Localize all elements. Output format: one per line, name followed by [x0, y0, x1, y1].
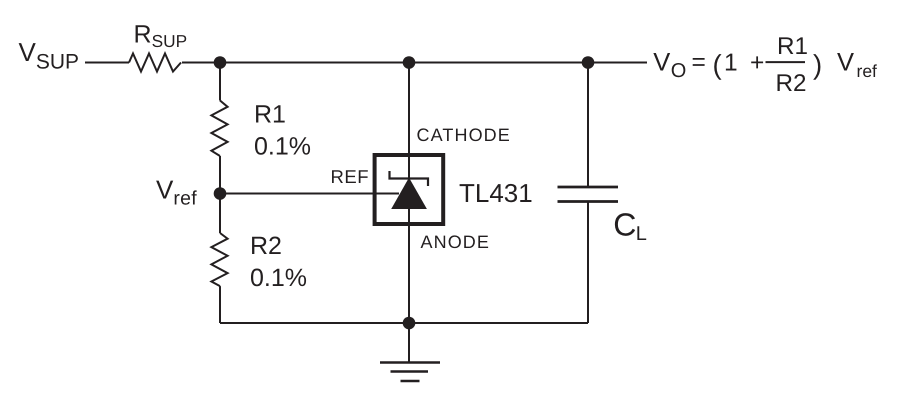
svg-text:+: +: [750, 50, 764, 77]
TL431 cathode bar: [390, 171, 429, 186]
wire node A down to R1: [219, 63, 221, 101]
resistor R2: [211, 233, 227, 286]
node D junction anode/ground: [403, 317, 416, 330]
ground: [380, 363, 440, 382]
wire top rail: [182, 62, 647, 64]
node Vref junction: [214, 187, 227, 200]
svg-text:R1: R1: [777, 33, 808, 60]
node A junction top of R1: [214, 56, 227, 69]
wire anode from TL431 to bottom rail: [408, 208, 410, 323]
svg-text:ANODE: ANODE: [421, 232, 491, 252]
svg-text:R1: R1: [254, 100, 286, 128]
svg-text:V: V: [653, 49, 670, 77]
svg-text:R2: R2: [250, 232, 282, 260]
resistor RSUP: [129, 54, 181, 72]
wire ground stem: [408, 323, 410, 362]
svg-text:=: =: [692, 49, 706, 76]
svg-text:0.1%: 0.1%: [254, 132, 311, 160]
wire Vsup to Rsup: [85, 62, 129, 64]
op-amp U1 TL431 box: [375, 155, 444, 224]
svg-text:1: 1: [724, 50, 738, 77]
svg-text:REF: REF: [331, 166, 370, 187]
svg-text:(: (: [713, 49, 722, 80]
svg-text:ref: ref: [857, 61, 878, 81]
svg-text:TL431: TL431: [459, 178, 533, 208]
node B junction cathode: [403, 56, 416, 69]
svg-text:R2: R2: [776, 70, 807, 97]
wire CL branch top: [587, 63, 589, 187]
formula fraction bar: [766, 61, 806, 63]
svg-text:O: O: [671, 60, 687, 82]
wire bottom rail: [220, 322, 588, 324]
wire REF from Vref node to TL431: [220, 193, 399, 195]
svg-text:): ): [813, 49, 822, 80]
resistor R1: [211, 101, 227, 157]
svg-text:0.1%: 0.1%: [250, 264, 307, 292]
svg-text:C: C: [613, 206, 636, 242]
svg-text:CATHODE: CATHODE: [417, 125, 511, 145]
wire R2 to bottom rail: [219, 286, 221, 323]
wire R1 to Vref node: [219, 156, 221, 194]
svg-text:V: V: [837, 49, 854, 77]
wire CL branch bottom: [587, 202, 589, 323]
wire Vref node down to R2: [219, 194, 221, 234]
wire cathode from top rail into TL431: [408, 63, 410, 179]
TL431 triangle: [391, 178, 427, 209]
capacitor CL plates: [558, 186, 619, 189]
svg-text:L: L: [636, 223, 647, 245]
node C junction CL top: [582, 56, 595, 69]
